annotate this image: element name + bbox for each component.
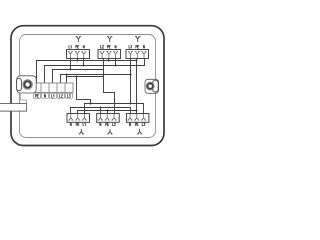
junction L2 bus / top group 2 [103, 74, 105, 76]
top outlet group circuit 2 (L2): outlet symbol [107, 37, 112, 43]
wire N feed riser [44, 65, 46, 86]
wire L3 jog drop [90, 99, 92, 104]
incoming mains cable stub (left) [0, 104, 27, 112]
right gland ring [146, 82, 154, 90]
junction L3 drop [76, 76, 78, 78]
wire L2 bus [60, 74, 131, 76]
feed label L1 [50, 93, 57, 98]
bottom outlet group circuit 4 (L1): terminal box [67, 114, 90, 123]
wire stub N to top group 2 [115, 58, 117, 66]
junction N bus / top group 2 [115, 65, 117, 67]
feed terminal block body [33, 83, 73, 92]
wire lower bus B [70, 107, 131, 109]
junction lower bus B / group 2 N [100, 107, 102, 109]
junction L1 bus / top group 1 [70, 69, 72, 71]
top outlet group circuit 3 (L3): terminal labels [129, 45, 145, 48]
bottom outlet group circuit 4 (L1): clamp contacts [68, 114, 87, 120]
wire stub L2 to top group 2 / drop [103, 58, 105, 93]
bottom outlet group circuit 4 (L1): terminal labels [70, 123, 85, 126]
bottom outlet group circuit 5 (L2): terminal box [97, 114, 120, 123]
wire PE bus [36, 60, 137, 62]
wire stub N to bottom group 3 [130, 107, 132, 114]
feed label L3 [66, 93, 73, 98]
wire L1 bus [52, 69, 104, 71]
wire stub PE to top group 1 [77, 58, 79, 61]
wire N bus [44, 65, 145, 67]
wire stub L3 to top group 3 / drop [130, 58, 132, 104]
wire stub L3 to bottom group 3 [143, 103, 145, 114]
wire L3 jog [76, 99, 91, 101]
top outlet group circuit 2 (L2): terminal labels [101, 45, 117, 48]
wire stub N to bottom group 1 [70, 107, 72, 114]
wire L3 feed riser [66, 76, 68, 86]
junction PE bus / top group 2 [108, 60, 110, 62]
wire L2 jog [103, 92, 115, 94]
bottom outlet group circuit 6 (L3): outlet symbol [137, 129, 142, 134]
top outlet group circuit 3 (L3): terminal box [126, 50, 149, 59]
junction L2-L3 link [66, 74, 68, 76]
feed label N [42, 93, 49, 98]
bottom outlet group circuit 5 (L2): terminal labels [100, 123, 116, 126]
wire link L2-L3 corner [66, 74, 68, 77]
cable funnel outline [20, 93, 26, 103]
wire L3 drop [76, 76, 78, 100]
top outlet group circuit 2 (L2): clamp contacts [100, 52, 119, 58]
top outlet group circuit 2 (L2): terminal box [98, 50, 121, 59]
wire stub N to top group 1 [83, 58, 85, 66]
wire L2 feed riser [60, 74, 62, 86]
feed label L2 [58, 93, 65, 98]
bottom outlet group circuit 4 (L1): outlet symbol [79, 129, 84, 134]
left gland nut [17, 78, 22, 90]
top outlet group circuit 1 (L1): clamp contacts [68, 52, 87, 58]
junction lower bus C / PE drop [136, 110, 138, 112]
bottom outlet group circuit 5 (L2): outlet symbol [107, 129, 112, 134]
junction N bus / top group 1 [83, 65, 85, 67]
junction PE bus / top group 1 [77, 60, 79, 62]
right cable gland housing [145, 79, 159, 93]
enclosure inner wall [20, 35, 156, 138]
wire lower bus A [84, 103, 144, 105]
wire L3 bus [66, 76, 104, 78]
junction lower bus A / L3 stub [130, 103, 132, 105]
junction L2 bus end [130, 74, 132, 76]
wire lower bus C [77, 110, 137, 112]
junction lower bus C / group 2 PE [107, 110, 109, 112]
junction PE bus / PE drop [136, 60, 138, 62]
feed label PE [34, 93, 41, 98]
left gland ring [23, 80, 33, 90]
wire stub PE to bottom group 1 [77, 110, 79, 114]
wire stub L1 to bottom group 1 [84, 103, 86, 114]
wire PE feed riser [36, 60, 38, 86]
wire stub PE to top group 3 / PE drop [136, 58, 138, 114]
feed block cell dividers [41, 83, 65, 92]
bottom outlet group circuit 6 (L3): clamp contacts [127, 114, 146, 120]
top outlet group circuit 1 (L1): terminal labels [69, 45, 84, 48]
top outlet group circuit 1 (L1): terminal box [67, 50, 90, 59]
junction lower bus A / jog [90, 103, 92, 105]
wire L1 feed riser [52, 69, 54, 86]
enclosure outer wall [11, 26, 164, 146]
wire L2 drop to bottom group 2 [114, 92, 116, 114]
right gland nut [153, 80, 159, 92]
top outlet group circuit 3 (L3): outlet symbol [135, 37, 140, 43]
bottom outlet group circuit 6 (L3): terminal box [126, 114, 148, 123]
left cable gland housing [17, 76, 36, 93]
wire stub N to bottom group 2 [100, 107, 102, 114]
wire stub PE to bottom group 2 [107, 110, 109, 114]
wire stub L1 to top group 1 [70, 58, 72, 70]
wire stub N to top group 3 [144, 58, 146, 66]
bottom outlet group circuit 5 (L2): clamp contacts [98, 114, 117, 120]
top outlet group circuit 1 (L1): outlet symbol [76, 37, 81, 43]
wire stub PE to top group 2 [108, 58, 110, 61]
top outlet group circuit 3 (L3): clamp contacts [128, 52, 147, 58]
bottom outlet group circuit 6 (L3): terminal labels [129, 123, 145, 126]
